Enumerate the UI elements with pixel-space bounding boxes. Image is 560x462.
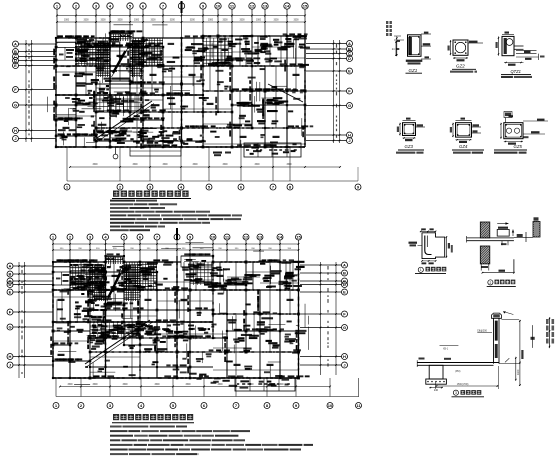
bottom plan: dark zones flanking stair [89,265,91,301]
svg-text:3300: 3300 [239,20,245,22]
svg-text:GZ1: GZ1 [409,68,418,73]
top plan: left dimension chains [25,40,32,142]
small section blob and tick [517,234,523,237]
detail 3 canopy: inner rebar dim [531,325,535,348]
detail 2 label [487,280,516,287]
detail GZ3: column section [396,118,425,154]
bottom plan: south protrusion labels [189,373,238,387]
svg-text:3300: 3300 [192,164,198,166]
top plan NW corner: white room carve [56,39,76,65]
svg-text:(350): (350) [455,371,461,373]
svg-text:3300: 3300 [254,164,260,166]
svg-text:3300: 3300 [92,164,98,166]
top plan: top dimension chain lines [56,15,306,23]
right rebar column [533,222,540,238]
svg-text:10: 10 [211,235,216,240]
svg-text:J: J [14,136,16,141]
bottom plan: left dimension chains [18,262,25,378]
svg-text:D: D [348,56,351,61]
bottom plan: left axis bubbles [7,263,53,368]
svg-text:3300: 3300 [122,384,128,386]
svg-text:E: E [9,290,12,295]
svg-text:E: E [348,69,351,74]
svg-text:14: 14 [278,235,283,240]
detail GZ1: column section [386,21,431,73]
svg-text:14: 14 [285,4,290,9]
lower hatched wall [480,246,490,264]
detail 1 label [415,267,446,274]
svg-text:3300: 3300 [117,20,123,22]
svg-text:3300: 3300 [293,20,299,22]
svg-text:240: 240 [434,389,439,392]
detail GZ5: column section with flag [494,112,548,154]
right vertical dimension [445,236,447,258]
top plan: partition infill lines [69,108,76,110]
top plan: northwest dense rooms speckle [58,39,163,94]
svg-text:G: G [343,325,346,330]
svg-text:15: 15 [303,4,308,9]
top plan: drain mark below slab edge [113,147,231,159]
svg-text:GZ5: GZ5 [514,144,523,149]
top plan: right dimension chains [333,40,341,143]
top plan: wall dash segments and door jambs [55,33,306,148]
bottom plan: right axis bubbles [300,262,348,368]
detail GZ4: column section [450,118,484,154]
floor slab [467,237,514,239]
svg-text:3300: 3300 [256,20,262,22]
bottom plan: balcony fine grids [70,262,213,338]
NW room labels [66,49,74,51]
title: standard floor framing plan title [112,414,194,423]
top plan: floor beam grid [56,33,305,147]
svg-text:J: J [348,138,350,143]
bottom plan: bottom axis bubbles [53,403,362,409]
svg-text:B: B [9,272,12,277]
svg-text:J: J [343,363,345,368]
title: 2nd floor framing plan title [112,191,191,199]
bottom plan: partition infill lines [192,247,213,249]
svg-text:GZ3: GZ3 [405,144,414,149]
svg-text:QTZ1: QTZ1 [511,69,521,74]
up arrow right of beam [512,230,514,237]
svg-text:H: H [14,128,17,133]
svg-text:1: 1 [420,268,422,272]
detail QTZ1: wall column section [496,32,545,79]
bottom plan: extra partitions in north band [190,262,302,290]
svg-text:G: G [8,325,11,330]
detail 3 canopy: bottom overall dimension [436,366,499,389]
top plan: bottom balcony protrusions [130,143,301,157]
svg-text:3300: 3300 [162,164,168,166]
bottom dimension [482,272,514,274]
J-shaped rebar [425,236,432,255]
svg-text:A: A [343,263,346,268]
detail GZ2: column section [448,40,484,73]
svg-text:3300: 3300 [134,20,140,22]
svg-text:GZ4: GZ4 [459,144,468,149]
svg-text:10: 10 [328,403,333,408]
svg-text:H: H [9,354,12,359]
svg-text:3300: 3300 [100,20,106,22]
bottom dimension [422,260,436,262]
svg-text:H: H [343,354,346,359]
svg-text:3300: 3300 [222,164,228,166]
svg-text:10: 10 [216,4,221,9]
svg-text:3300: 3300 [132,164,138,166]
beam section above slab [497,230,509,237]
svg-text:3300: 3300 [92,384,98,386]
svg-text:D: D [343,282,346,287]
svg-text:3300: 3300 [278,384,284,386]
bottom plan: west rooms light speckle [64,293,88,368]
svg-text:3300: 3300 [286,164,292,166]
svg-text:A: A [348,41,351,46]
bottom plan: top dimension chains [52,243,299,251]
bottom plan: top axis bubbles [50,228,302,262]
cornice profile outline [422,233,445,259]
bottom plan: bottom protrusion rooms [181,256,295,391]
bottom plan: stair shaft and flights [56,256,152,367]
svg-text:2: 2 [489,281,491,285]
svg-text:3300: 3300 [83,20,89,22]
svg-text:3300: 3300 [208,20,214,22]
base ticks under wall [480,264,482,271]
detail 2: wall-slab junction section [467,217,541,273]
top plan: dark zones flanking stair [95,41,97,77]
upper hatched wall [480,222,490,238]
top plan: column blocks [55,32,307,149]
svg-text:XB-1: XB-1 [443,349,449,351]
top plan: corridor heavy text band [97,131,202,144]
svg-text:3300: 3300 [222,20,228,22]
top plan: west rooms light speckle [58,97,94,136]
NW room edge lines [56,41,76,43]
svg-text:E: E [14,63,17,68]
top plan: beam text labels [48,25,314,149]
top arrow [497,223,508,225]
top plan: extra partitions in north band [203,36,309,68]
detail 3 canopy: right height dimension [499,320,524,386]
svg-text:3300: 3300 [273,20,279,22]
left leader text [409,242,418,244]
top plan: top axis grid bubbles [54,1,308,38]
bottom plan: right dimension chains [320,262,337,375]
notes text block 1 [110,200,242,232]
svg-text:G: G [14,103,17,108]
bottom plan: wall dash segments [52,256,299,379]
svg-text:12: 12 [244,235,249,240]
svg-text:G: G [348,103,351,108]
svg-text:3: 3 [455,391,457,395]
bottom plan: northwest dense rooms speckle [55,264,157,318]
svg-text:12: 12 [250,4,255,9]
svg-text:3300: 3300 [64,20,70,22]
bottom plan: dense corridor band labels [53,322,213,338]
svg-text:A: A [9,264,12,269]
top plan: left axis bubbles [13,41,57,142]
svg-text:GZ2: GZ2 [456,64,465,69]
svg-text:H: H [348,133,351,138]
svg-text:3300: 3300 [154,384,160,386]
detail 3: canopy parapet section [417,311,554,397]
top plan: dense corridor band labels [56,95,206,145]
top plan: stair shaft and flights [58,33,303,143]
svg-text:J: J [9,363,11,368]
svg-text:E: E [343,290,346,295]
svg-text:3300: 3300 [150,20,156,22]
svg-text:1500(1700): 1500(1700) [457,384,469,386]
top plan: bottom axis bubbles [64,184,361,190]
bottom plan: column blocks [52,255,300,380]
notes text block 2 [110,426,313,456]
svg-text:3300: 3300 [217,384,223,386]
top plan: bottom dimension line [67,147,358,181]
svg-text:D: D [9,282,12,287]
bottom plan: corridor heavy text band [92,325,210,338]
svg-text:B: B [343,271,346,276]
bottom plan: beam text labels [50,242,309,384]
top dimension [421,230,436,232]
svg-text:3300: 3300 [185,384,191,386]
bottom plan: bottom dimension line [56,378,359,397]
svg-text:13: 13 [263,4,268,9]
top plan: right axis bubbles [306,41,353,144]
svg-text:A: A [14,42,17,47]
svg-text:15: 15 [296,235,301,240]
svg-text:C8@200: C8@200 [477,329,488,332]
detail 1: cornice section [409,228,453,264]
svg-text:13: 13 [258,235,263,240]
svg-text:3300: 3300 [170,20,176,22]
bottom plan: floor beam grid [53,256,299,378]
under-slab dims [501,241,503,246]
svg-text:1100: 1100 [517,369,520,375]
bottom plan NW corner: white room carve [53,263,70,288]
top plan: balcony fine grids [76,38,232,112]
svg-text:3300: 3300 [67,384,73,386]
svg-text:3300: 3300 [190,20,196,22]
